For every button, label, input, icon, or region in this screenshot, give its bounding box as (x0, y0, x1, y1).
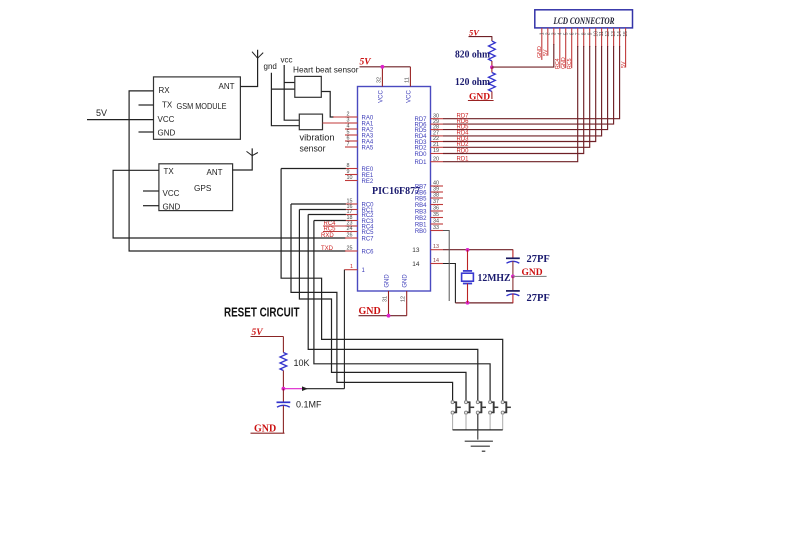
GND under PIC (359, 315, 407, 317)
pin 21 RD2 (right) (431, 146, 444, 148)
svg-text:5V: 5V (543, 49, 549, 56)
capacitor C3 0.1MF (282, 389, 284, 403)
wire RC2 to button S3 (308, 215, 478, 401)
svg-text:VCC: VCC (378, 90, 384, 103)
LCD pin 10 (595, 28, 597, 47)
wire GPS VCC stub (143, 190, 159, 192)
wire R120 to GND (491, 92, 493, 100)
svg-text:RD2: RD2 (457, 142, 470, 148)
antenna GSM (252, 52, 263, 59)
svg-text:12: 12 (401, 296, 407, 302)
LCD pin 1 (541, 28, 543, 60)
wire GPS ANT (233, 148, 253, 170)
svg-text:RX: RX (159, 86, 171, 95)
wire RD0 to LCD pin 8 (443, 46, 584, 154)
pin 33 RB0 (right) (431, 230, 444, 232)
svg-text:RB0: RB0 (415, 229, 427, 235)
svg-text:RB3: RB3 (415, 209, 427, 215)
pin 32 VDD top (381, 67, 383, 87)
pin 18 RC3 (left) (345, 220, 358, 222)
pin 13 OSC1 (431, 249, 444, 251)
wire vcc rail to sensors (284, 65, 299, 120)
pin 31 VSS bottom (388, 291, 390, 316)
pin 35 RB2 (right) (431, 217, 444, 219)
svg-text:13: 13 (433, 244, 439, 250)
push button S2 (465, 401, 475, 430)
wire RD3 to LCD pin 10 (443, 46, 596, 142)
svg-text:sensor: sensor (300, 144, 326, 154)
wire GSM ANT (240, 50, 257, 87)
svg-text:TX: TX (164, 167, 175, 176)
svg-text:21: 21 (433, 142, 439, 148)
resistor 120 ohm (491, 67, 493, 72)
wire RD7 to LCD pin 14 (443, 46, 620, 119)
wire vibration sensor to RA1 (323, 122, 358, 124)
wire 5V to GSM VCC (87, 119, 154, 121)
wire 5V to R 820ohm (491, 37, 493, 41)
svg-text:10K: 10K (294, 358, 310, 368)
pin 22 RD3 (right) (431, 141, 444, 143)
svg-text:ANT: ANT (219, 82, 235, 91)
svg-text:7: 7 (347, 142, 350, 148)
svg-text:32: 32 (376, 77, 382, 83)
wire GPS GND stub (143, 205, 159, 207)
LCD pin 11 (601, 28, 603, 47)
push button S1 (451, 401, 461, 430)
svg-text:15: 15 (623, 31, 629, 37)
pin 25 RC6 (left) (345, 250, 358, 252)
wire pin13 to crystal rail (443, 249, 513, 251)
wire RD4 to LCD pin 11 (443, 46, 602, 136)
net label RC4 (323, 225, 345, 227)
wire R820 to junction (491, 61, 493, 67)
svg-text:12MHZ: 12MHZ (478, 273, 511, 284)
svg-text:RD0: RD0 (457, 148, 470, 154)
pin 39 RB6 (right) (431, 191, 444, 193)
pin 37 RB4 (right) (431, 204, 444, 206)
LCD pin 7 (577, 28, 579, 47)
wire R 10K to reset node (282, 371, 284, 389)
svg-text:31: 31 (382, 296, 388, 302)
svg-text:vcc: vcc (281, 56, 293, 65)
svg-text:0.1MF: 0.1MF (296, 400, 322, 410)
pin 7 RA5 (left) (345, 146, 358, 148)
resistor 820 ohm (489, 41, 496, 61)
svg-text:RD1: RD1 (414, 160, 427, 166)
svg-text:RD5: RD5 (457, 124, 470, 130)
wire GSM TX stub (139, 104, 154, 106)
pin 5 RA3 (left) (345, 134, 358, 136)
resistor R1 10K (280, 353, 287, 371)
svg-text:GND: GND (254, 423, 276, 434)
svg-text:GPS: GPS (194, 184, 212, 193)
LCD pin 15 (625, 28, 627, 68)
svg-text:33: 33 (433, 225, 439, 231)
pin 8 RE0 (left) (345, 168, 358, 170)
svg-text:820 ohm: 820 ohm (455, 50, 491, 61)
svg-text:VCC: VCC (158, 115, 175, 124)
pin 16 RC1 (left) (345, 209, 358, 211)
LCD pin 12 (607, 28, 609, 47)
svg-text:GND: GND (403, 274, 409, 288)
svg-text:VCC: VCC (406, 90, 412, 103)
wire 5V to R 10K (282, 337, 284, 353)
pin 10 RE2 (left) (345, 180, 358, 182)
svg-text:gnd: gnd (264, 62, 277, 71)
svg-text:RD0: RD0 (414, 152, 427, 158)
svg-text:26: 26 (347, 233, 353, 239)
wire vcc branch to heart beat sensor (284, 82, 295, 84)
wire GSM RX to PIC RC6 (TXD net) (129, 91, 346, 251)
wire gnd branch to heart beat sensor (271, 88, 294, 90)
wire reset node to MCLR pin1 (283, 388, 304, 390)
wire GSM GND stub (139, 131, 154, 133)
svg-text:5V: 5V (469, 27, 480, 37)
wire RD5 to LCD pin 12 (443, 46, 608, 130)
wire RD6 to LCD pin 13 (443, 46, 614, 124)
GSM module U2 box (154, 77, 241, 139)
svg-text:TXD: TXD (321, 246, 334, 252)
svg-text:10: 10 (347, 175, 353, 181)
pin 40 RB7 (right) (431, 185, 444, 187)
wire RC3 to button S4 (314, 221, 490, 401)
capacitor C2 27PF (512, 276, 514, 291)
pin 1 MCLR stub (344, 269, 357, 271)
antenna GPS (247, 151, 258, 155)
wire heart beat sensor to RA0 (321, 92, 334, 118)
svg-text:RC5: RC5 (567, 58, 573, 69)
push button S4 (489, 401, 499, 430)
svg-text:RC5: RC5 (362, 230, 375, 236)
svg-text:RC5: RC5 (324, 226, 337, 232)
svg-text:25: 25 (347, 246, 353, 252)
svg-text:14: 14 (433, 258, 439, 264)
pin 30 RD7 (right) (431, 118, 444, 120)
pin 28 RD5 (right) (431, 129, 444, 131)
svg-text:Heart beat sensor: Heart beat sensor (293, 65, 359, 75)
svg-text:RD2: RD2 (414, 146, 427, 152)
svg-text:RA5: RA5 (362, 145, 374, 151)
LCD pin 13 (613, 28, 615, 47)
svg-text:vibration: vibration (300, 133, 335, 143)
pin 4 RA2 (left) (345, 128, 358, 130)
pin 6 RA4 (left) (345, 140, 358, 142)
svg-text:GND: GND (163, 203, 181, 212)
crystal X1 12MHZ (467, 250, 469, 271)
svg-text:5V: 5V (96, 108, 107, 118)
svg-text:36: 36 (433, 206, 439, 212)
pin 29 RD6 (right) (431, 123, 444, 125)
pin 36 RB3 (right) (431, 210, 444, 212)
svg-text:RESET CIRCUIT: RESET CIRCUIT (224, 305, 300, 320)
svg-text:RD1: RD1 (457, 157, 470, 163)
svg-text:35: 35 (433, 212, 439, 218)
pin 20 RD1 (right) (431, 161, 444, 163)
svg-text:24: 24 (347, 226, 353, 232)
wire RE0 to button S5 (281, 169, 503, 401)
pin 11 VDD top (409, 67, 411, 87)
LCD pin 9 (589, 28, 591, 47)
svg-text:RB2: RB2 (415, 216, 427, 222)
wire divider junction to LCD pin 3 (492, 44, 554, 67)
svg-text:11: 11 (404, 77, 410, 83)
LCD pin 5 (565, 28, 567, 68)
pin 26 RC7 (left) (345, 237, 358, 239)
pin 24 RC5 (left) (345, 231, 358, 233)
wire pin14 down to bottom rail (443, 264, 455, 303)
pin 2 RA0 (left) (345, 116, 358, 118)
svg-text:13: 13 (412, 247, 420, 254)
svg-text:GSM MODULE: GSM MODULE (177, 101, 227, 111)
pin 14 OSC2 (431, 263, 444, 265)
vibration sensor box (299, 114, 322, 130)
push button S3 (476, 401, 486, 430)
bottom crystal rail (455, 302, 513, 304)
svg-text:20: 20 (433, 156, 439, 162)
svg-text:14: 14 (412, 261, 420, 268)
wire RC1 to button S2 (299, 210, 466, 401)
pin 38 RB5 (right) (431, 197, 444, 199)
svg-text:RC7: RC7 (362, 236, 375, 242)
pin 17 RC2 (left) (345, 214, 358, 216)
LCD pin 3 (553, 28, 555, 45)
wire RD1 to LCD pin 7 (443, 46, 578, 162)
net label RC5 (323, 231, 345, 233)
pin 12 VSS bottom (406, 291, 408, 316)
wire GPS TX to PIC RC7 (RXD net) (113, 170, 346, 238)
capacitor C1 27PF (512, 250, 514, 259)
svg-text:27PF: 27PF (527, 293, 550, 304)
ground (477, 414, 479, 440)
svg-text:38: 38 (433, 193, 439, 199)
LCD pin 14 (619, 28, 621, 47)
svg-text:120 ohm: 120 ohm (455, 77, 491, 88)
svg-text:VCC: VCC (163, 189, 180, 198)
wire button common rail (453, 429, 503, 431)
pin 27 RD4 (right) (431, 135, 444, 137)
svg-text:PIC16F877: PIC16F877 (372, 186, 421, 197)
svg-text:ANT: ANT (207, 168, 223, 177)
LCD pin 6 (571, 28, 573, 68)
LCD pin 2 (547, 28, 549, 56)
pin 9 RE1 (left) (345, 174, 358, 176)
pin 34 RB1 (right) (431, 223, 444, 225)
wire RD2 to LCD pin 9 (443, 46, 590, 147)
svg-text:28: 28 (433, 124, 439, 130)
svg-text:34: 34 (433, 219, 439, 225)
svg-text:RE2: RE2 (362, 179, 374, 185)
pin 23 RC4 (left) (345, 225, 358, 227)
pin 3 RA1 (left) (345, 122, 358, 124)
svg-text:RC6: RC6 (362, 249, 375, 255)
node GND between caps (511, 275, 515, 279)
svg-text:37: 37 (433, 199, 439, 205)
svg-text:27PF: 27PF (527, 254, 550, 265)
svg-text:5V: 5V (621, 61, 627, 68)
svg-text:GND: GND (158, 129, 176, 138)
pin 19 RD0 (right) (431, 153, 444, 155)
LCD pin 4 (559, 28, 561, 68)
svg-text:GND: GND (359, 306, 381, 317)
GPS module U3 box (159, 164, 233, 211)
svg-text:5V: 5V (360, 58, 372, 68)
node reset junction (282, 387, 286, 391)
LCD pin 8 (583, 28, 585, 47)
svg-text:GND: GND (385, 274, 391, 288)
heart beat sensor box (295, 76, 322, 97)
wire RC0 to button S1 (291, 204, 453, 401)
5V rail above PIC (360, 66, 411, 68)
wire RB0 dangling (443, 231, 449, 302)
push button S5 (501, 401, 511, 430)
svg-text:1: 1 (350, 264, 353, 270)
svg-text:RD5: RD5 (414, 128, 427, 134)
LCD connector J1 box (535, 10, 633, 28)
svg-text:19: 19 (433, 148, 439, 154)
svg-text:LCD CONNECTOR: LCD CONNECTOR (553, 17, 615, 27)
pin 15 RC0 (left) (345, 203, 358, 205)
svg-text:RB5: RB5 (415, 196, 427, 202)
svg-text:RB1: RB1 (415, 222, 427, 228)
svg-text:RXD: RXD (321, 233, 334, 239)
PIC16F877 U1 body (358, 87, 431, 292)
svg-text:TX: TX (162, 101, 173, 110)
wire gnd rail to sensors (271, 73, 299, 126)
svg-text:RB4: RB4 (415, 203, 427, 209)
